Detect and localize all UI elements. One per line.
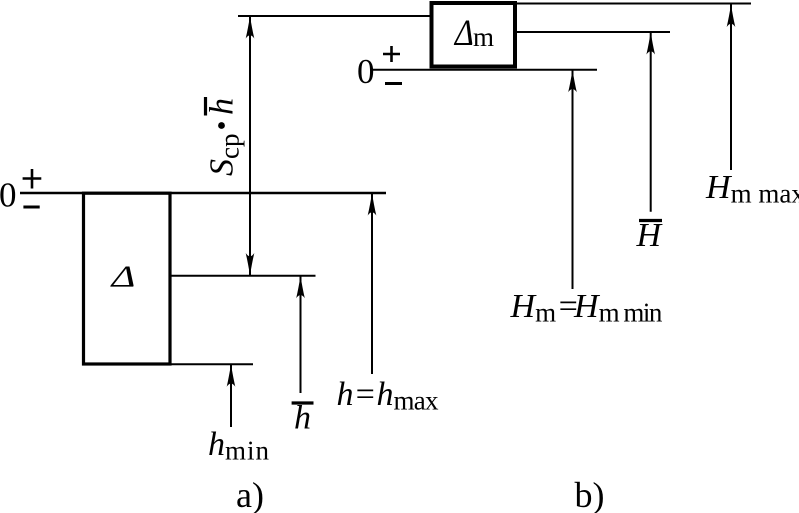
node plus sign a: [23, 169, 42, 189]
label Delta m: [453, 13, 474, 54]
box Delta m (tolerance zone b): [432, 3, 516, 67]
arrow h min: [227, 364, 236, 427]
wire zero line b: [373, 69, 597, 71]
wire middle line a (mean h level): [170, 275, 316, 277]
svg-text:0: 0: [0, 176, 17, 215]
svg-text:h: h: [294, 400, 311, 437]
svg-text:Δ: Δ: [453, 13, 474, 54]
node minus sign b: [385, 82, 402, 85]
arrow mean H: [646, 32, 655, 212]
wire bottom line a (h min level): [170, 363, 253, 365]
arrow Scp·h double-headed: [246, 16, 255, 276]
label Scp·h (rotated): [204, 97, 245, 176]
svg-text:H: H: [636, 217, 664, 254]
svg-text:h: h: [204, 98, 241, 115]
svg-text:Δ: Δ: [109, 259, 135, 293]
arrow h=h max: [368, 193, 377, 374]
node minus sign a: [23, 206, 39, 209]
arrow mean h: [296, 276, 305, 393]
arrow H m = H m min: [568, 70, 577, 289]
wire zero line a: [20, 192, 386, 194]
box Delta (tolerance zone a): [84, 193, 171, 364]
arrow H m max: [727, 5, 736, 171]
svg-text:a): a): [236, 475, 264, 513]
svg-text:b): b): [575, 475, 605, 513]
wire top right line (H m max level): [515, 3, 751, 5]
label Delta: [109, 259, 135, 293]
label mean H with overbar: [639, 219, 662, 222]
svg-text:0: 0: [357, 52, 375, 91]
node plus sign b: [383, 46, 400, 62]
label mean h with overbar: [292, 401, 314, 404]
wire mean H level line: [515, 31, 670, 33]
svg-text:m: m: [473, 22, 494, 52]
wire top line (Scp·h level): [238, 15, 430, 17]
